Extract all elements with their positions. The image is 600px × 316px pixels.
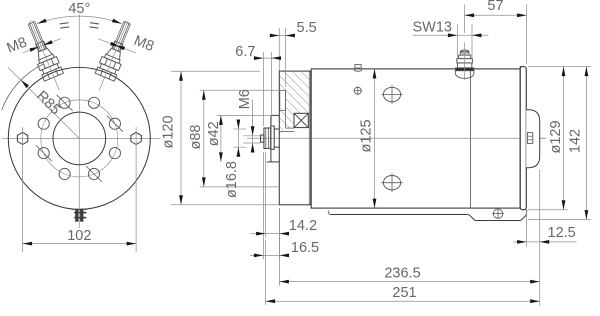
svg-text:SW13: SW13	[413, 19, 453, 35]
svg-text:ø88: ø88	[188, 125, 204, 150]
svg-text:ø16.8: ø16.8	[224, 161, 240, 198]
svg-text:ø129: ø129	[548, 120, 564, 153]
svg-text:57: 57	[487, 0, 503, 14]
svg-text:ø125: ø125	[358, 119, 374, 152]
svg-text:14.2: 14.2	[289, 218, 317, 234]
svg-text:5.5: 5.5	[297, 20, 317, 36]
svg-text:102: 102	[67, 228, 91, 244]
svg-text:ø120: ø120	[161, 115, 177, 148]
svg-text:16.5: 16.5	[291, 240, 319, 256]
svg-text:45°: 45°	[68, 1, 90, 17]
svg-text:251: 251	[392, 285, 416, 301]
svg-text:6.7: 6.7	[235, 44, 255, 60]
svg-text:236.5: 236.5	[384, 266, 420, 282]
svg-text:M6: M6	[237, 89, 253, 109]
svg-text:12.5: 12.5	[548, 225, 576, 241]
svg-text:ø42: ø42	[206, 121, 222, 146]
svg-text:142: 142	[568, 129, 584, 153]
